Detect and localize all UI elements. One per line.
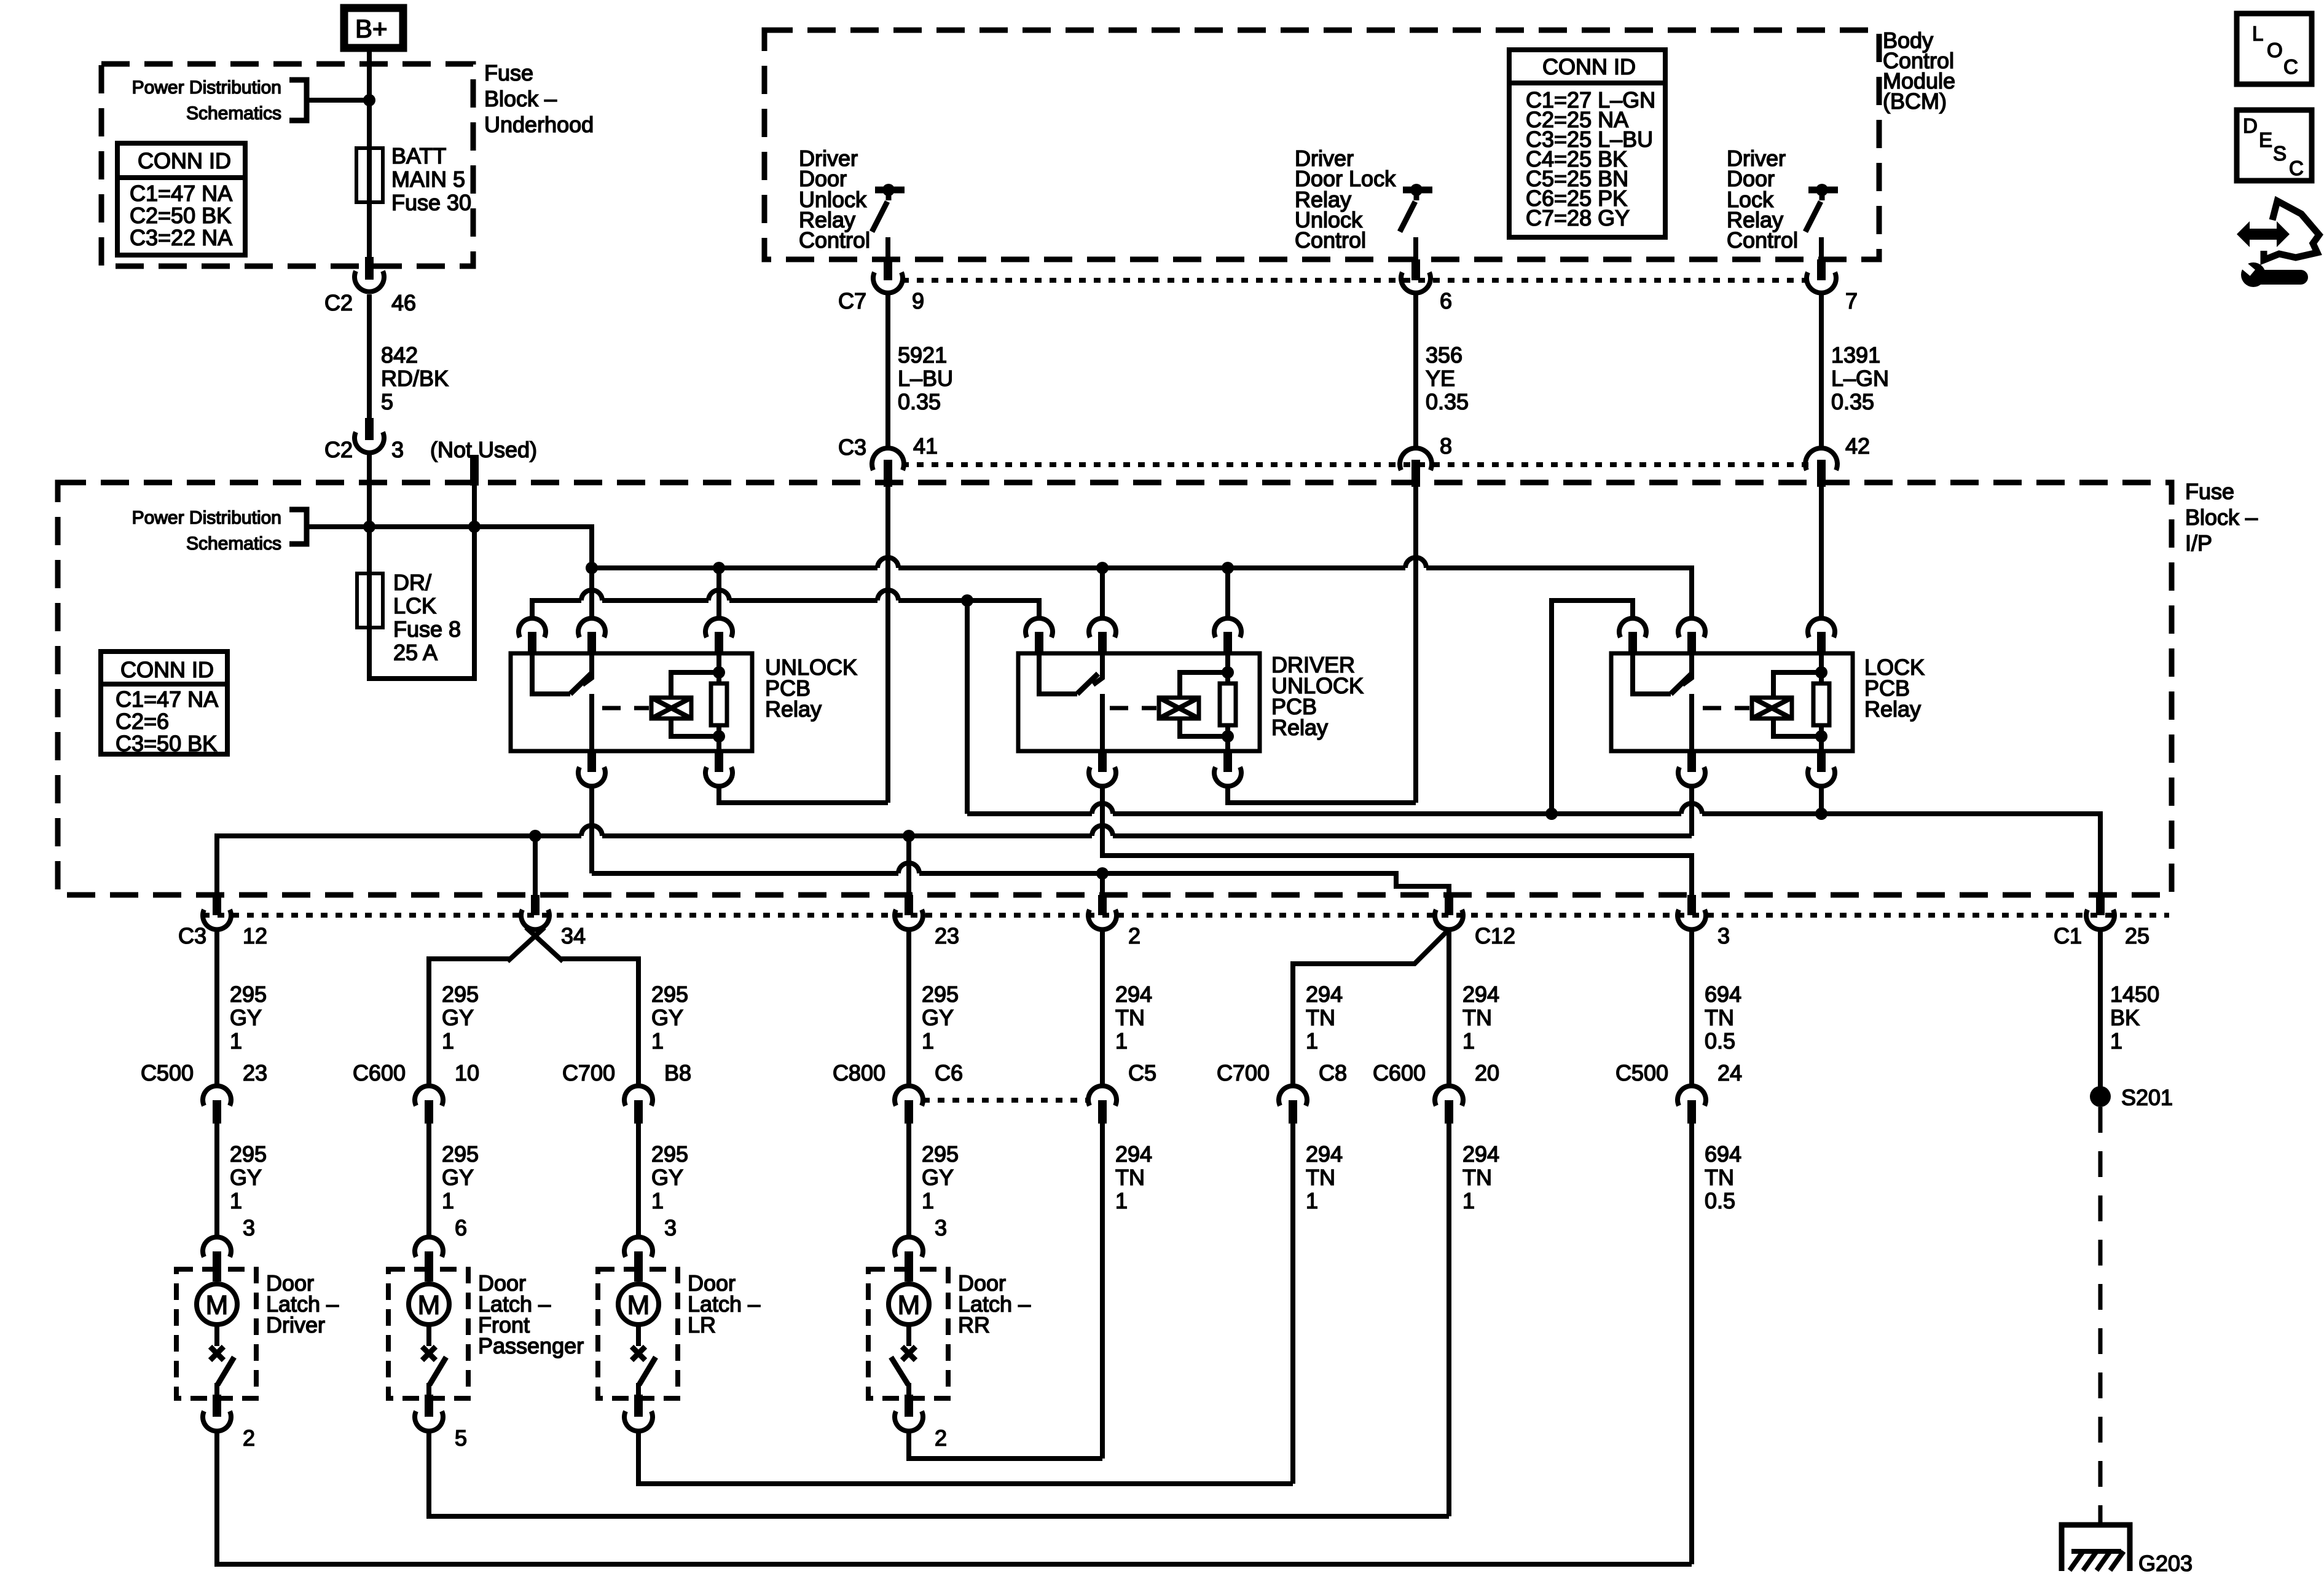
node bus C at lock common feed xyxy=(1545,808,1558,820)
svg-text:C2=50 BK: C2=50 BK xyxy=(130,203,231,228)
svg-text:C8: C8 xyxy=(1319,1060,1347,1085)
svg-text:25 A: 25 A xyxy=(393,640,438,665)
svg-text:694: 694 xyxy=(1705,1141,1741,1167)
connector C600 pin 10 xyxy=(353,1060,479,1124)
door latch driver label xyxy=(266,1270,339,1337)
svg-text:0.5: 0.5 xyxy=(1705,1188,1735,1213)
relay U2 label xyxy=(1271,652,1364,740)
svg-text:BATT: BATT xyxy=(391,143,446,168)
driver door unlock relay control label xyxy=(799,146,870,253)
node bus A at driver-unlock coil feed xyxy=(1222,562,1234,574)
wire 1450 BK 1 xyxy=(2100,929,2159,1097)
relay U2 switch xyxy=(1039,653,1102,751)
wire U2 switch output down to bus F xyxy=(1102,786,1692,895)
DESC icon box xyxy=(2237,110,2312,181)
node bus A at driver-unlock switch feed xyxy=(1096,562,1109,574)
svg-text:0.5: 0.5 xyxy=(1705,1028,1735,1053)
svg-text:295: 295 xyxy=(651,1141,688,1167)
wire bus A to unlock coil pin xyxy=(716,568,721,620)
svg-text:Fuse 8: Fuse 8 xyxy=(393,616,461,642)
svg-text:295: 295 xyxy=(922,1141,959,1167)
svg-text:6: 6 xyxy=(1440,288,1452,313)
wire 294 TN 1 C600-20 upper xyxy=(1462,982,1499,1053)
wire 295 GY 1 RR lower xyxy=(909,1124,959,1240)
svg-text:C3: C3 xyxy=(838,435,866,460)
door latch LR pin 3 connector xyxy=(624,1237,653,1282)
relay U3 coil xyxy=(1752,672,1821,736)
relay U3 switch output pin connector xyxy=(1678,751,1705,786)
switch RR latch xyxy=(891,1347,916,1396)
svg-text:CONN ID: CONN ID xyxy=(138,148,231,173)
ground G203 xyxy=(2062,1525,2192,1576)
wire bus E drop to connector 2 xyxy=(1100,873,1105,895)
svg-text:TN: TN xyxy=(1115,1005,1145,1030)
relay U2 resistor xyxy=(1220,653,1236,736)
connector pin 6 xyxy=(1401,259,1452,313)
wire 694 TN 0.5 upper xyxy=(1692,929,1741,1086)
svg-text:Block –: Block – xyxy=(484,86,557,111)
svg-text:C600: C600 xyxy=(1373,1060,1426,1085)
svg-text:MAIN 5: MAIN 5 xyxy=(391,167,465,192)
svg-text:1: 1 xyxy=(922,1028,934,1053)
power distribution schematics label (top) xyxy=(132,77,281,124)
svg-text:0.35: 0.35 xyxy=(898,389,941,414)
motor M RR xyxy=(889,1284,929,1346)
node bus A at unlock relay feed xyxy=(586,562,598,574)
wire BCM lock control down to lock coil xyxy=(1819,487,1824,620)
connector pin 3 xyxy=(1678,895,1730,948)
B+ terminal box xyxy=(344,8,403,48)
svg-text:1: 1 xyxy=(442,1188,454,1213)
svg-text:3: 3 xyxy=(935,1215,947,1240)
svg-text:G203: G203 xyxy=(2138,1551,2192,1576)
svg-text:GY: GY xyxy=(230,1165,262,1190)
BCM connector row dotted line xyxy=(902,278,1810,283)
svg-text:Power Distribution: Power Distribution xyxy=(132,508,281,528)
svg-text:C7: C7 xyxy=(838,288,866,313)
BCM label xyxy=(1883,28,1955,114)
svg-text:Power Distribution: Power Distribution xyxy=(132,77,281,98)
hop bus A over BCM unlock wire xyxy=(877,557,898,568)
node junction main feed at y857 xyxy=(363,521,375,533)
svg-text:41: 41 xyxy=(913,433,938,459)
svg-text:Fuse: Fuse xyxy=(484,60,533,85)
svg-text:YE: YE xyxy=(1426,366,1455,391)
relay U1 coil xyxy=(651,672,719,736)
svg-text:Underhood: Underhood xyxy=(484,112,594,137)
wire feed to DR/LCK fuse xyxy=(367,527,372,573)
CONN ID table (BCM) xyxy=(1509,50,1665,237)
door latch LR pin 2 connector xyxy=(624,1395,653,1431)
wire LR latch to C700-C8 xyxy=(638,1431,1293,1484)
svg-text:Control: Control xyxy=(799,227,870,253)
svg-text:C500: C500 xyxy=(1615,1060,1668,1085)
svg-text:C12: C12 xyxy=(1475,923,1515,948)
svg-text:23: 23 xyxy=(243,1060,267,1085)
wire BCM lock-unlock control down the IP block xyxy=(1413,487,1418,803)
relay U2 common pin connector xyxy=(1026,618,1053,653)
svg-text:Fuse: Fuse xyxy=(2185,479,2234,504)
svg-text:C3=22 NA: C3=22 NA xyxy=(130,225,232,250)
relay U3 switch xyxy=(1633,653,1692,751)
connector pin 2 xyxy=(1088,895,1140,948)
relay U1 switch fixed pin connector xyxy=(578,618,605,653)
door latch RR pin 3 connector xyxy=(895,1237,923,1282)
connector pin 23 xyxy=(895,895,959,948)
svg-text:46: 46 xyxy=(391,290,416,315)
hop bus B over unlock coil feed xyxy=(709,590,729,600)
svg-text:C7=28 GY: C7=28 GY xyxy=(1526,205,1630,230)
svg-text:5921: 5921 xyxy=(898,342,947,368)
svg-text:GY: GY xyxy=(922,1165,954,1190)
svg-text:M: M xyxy=(898,1290,921,1320)
svg-text:1450: 1450 xyxy=(2110,982,2159,1007)
IP connector row dotted line xyxy=(902,462,1810,467)
driver door lock relay unlock control label xyxy=(1295,146,1396,253)
svg-text:B+: B+ xyxy=(355,14,388,43)
wire bus C up to U3 common pin xyxy=(1552,600,1633,814)
svg-text:294: 294 xyxy=(1115,982,1152,1007)
svg-text:TN: TN xyxy=(1705,1005,1734,1030)
hop bus B over unlock switch feed xyxy=(581,590,602,600)
node bus D at 34 drop xyxy=(529,830,541,842)
door latch driver pin 3 connector xyxy=(203,1237,231,1282)
relay U2 coil pin connector xyxy=(1214,618,1241,653)
relay U1 coil bottom pin connector xyxy=(705,736,732,786)
connector pin C12 xyxy=(1435,895,1515,948)
node U3 coil bottom xyxy=(1815,730,1827,742)
svg-text:Fuse 30: Fuse 30 xyxy=(391,190,471,215)
svg-text:23: 23 xyxy=(935,923,959,948)
relay U1 UNLOCK PCB Relay box xyxy=(511,653,752,751)
svg-text:Control: Control xyxy=(1295,227,1366,253)
svg-text:1: 1 xyxy=(1462,1188,1475,1213)
svg-text:(BCM): (BCM) xyxy=(1883,89,1947,114)
connector C2 pin 46 xyxy=(324,257,416,315)
hop bus A over BCM lock-unlock wire xyxy=(1405,557,1426,568)
svg-text:M: M xyxy=(627,1290,650,1320)
node bus A at unlock coil feed xyxy=(713,562,725,574)
svg-text:8: 8 xyxy=(1440,433,1452,459)
relay U1 common pin connector xyxy=(519,618,546,653)
node bus B at lock feed drop xyxy=(961,594,973,607)
svg-text:TN: TN xyxy=(1462,1165,1492,1190)
svg-text:C2: C2 xyxy=(324,290,353,315)
bus B horizontal y977 xyxy=(532,600,1039,620)
hop bus C over U2 output xyxy=(1092,803,1113,814)
wire 295 GY 1 LR lower xyxy=(638,1124,688,1240)
svg-text:1: 1 xyxy=(1462,1028,1475,1053)
connector C12 Y split xyxy=(1293,929,1449,1086)
relay U3 label xyxy=(1864,655,1925,722)
svg-text:356: 356 xyxy=(1426,342,1462,368)
svg-text:3: 3 xyxy=(1717,923,1730,948)
wire 295 GY 1 LR upper xyxy=(651,982,688,1053)
body control module dashed box xyxy=(764,30,1879,259)
svg-text:C1=47 NA: C1=47 NA xyxy=(116,687,218,712)
svg-text:25: 25 xyxy=(2125,923,2149,948)
svg-text:BK: BK xyxy=(2110,1005,2140,1030)
wire bus A to unlock switch pin xyxy=(589,568,594,620)
wire driver latch to C500-24 xyxy=(217,1431,1692,1564)
wire RR latch to C5 xyxy=(909,1431,1102,1459)
svg-text:C500: C500 xyxy=(141,1060,194,1085)
svg-text:C1: C1 xyxy=(2054,923,2082,948)
svg-text:Block –: Block – xyxy=(2185,505,2258,530)
wire front passenger latch to C600-20 xyxy=(429,1431,1449,1516)
hop bus D over U1 output xyxy=(581,825,602,836)
svg-text:295: 295 xyxy=(230,1141,267,1167)
svg-text:42: 42 xyxy=(1845,433,1870,459)
svg-text:Relay: Relay xyxy=(765,696,822,722)
svg-text:C3: C3 xyxy=(178,923,206,948)
svg-text:D: D xyxy=(2243,114,2258,137)
svg-text:Schematics: Schematics xyxy=(186,534,281,554)
svg-text:C2=6: C2=6 xyxy=(116,709,169,734)
wire 294 TN 1 C5 lower xyxy=(1102,1124,1152,1459)
motor M LR xyxy=(618,1284,659,1346)
svg-text:L–GN: L–GN xyxy=(1831,366,1889,391)
svg-text:O: O xyxy=(2267,39,2283,61)
BCM driver door lock relay control switch xyxy=(1805,184,1838,232)
node U3 coil top xyxy=(1815,666,1827,679)
bracket to power distribution (IP) xyxy=(289,510,307,544)
svg-text:Driver: Driver xyxy=(266,1312,325,1337)
svg-text:TN: TN xyxy=(1705,1165,1734,1190)
relay U1 switch xyxy=(532,653,592,751)
wire U2 coil bottom to BCM lock-unlock wire xyxy=(1228,786,1416,803)
svg-text:GY: GY xyxy=(651,1005,683,1030)
connector pin 8 xyxy=(1400,433,1452,487)
wire 1391 L-GN 0.35 xyxy=(1821,295,1889,450)
wire switch to pin 7 xyxy=(1819,237,1824,261)
switch LR latch xyxy=(632,1347,656,1396)
wire 5921 L-BU 0.35 xyxy=(888,295,953,450)
BCM driver door unlock relay control switch xyxy=(872,184,905,232)
svg-text:3: 3 xyxy=(664,1215,677,1240)
wire C2-3 into fuse block IP xyxy=(367,455,372,527)
wire 295 GY 1 front passenger lower xyxy=(429,1124,479,1240)
CONN ID table (IP) xyxy=(101,652,227,756)
svg-text:20: 20 xyxy=(1475,1060,1499,1085)
relay U2 switch fixed pin connector xyxy=(1089,618,1116,653)
wire not-used stub to junction xyxy=(472,484,477,527)
BCM driver door lock relay unlock control switch xyxy=(1400,184,1432,232)
svg-text:C2: C2 xyxy=(324,437,353,462)
node bus C at lock coil bottom xyxy=(1815,808,1827,820)
svg-text:TN: TN xyxy=(1115,1165,1145,1190)
splice S201 xyxy=(2090,1085,2173,1110)
wire y857 to bus A corner xyxy=(369,527,592,568)
wire 294 TN 1 C600-20 lower xyxy=(1449,1124,1499,1516)
relay U3 resistor xyxy=(1813,653,1829,736)
bracket to power distribution (top) xyxy=(289,80,307,120)
wire 356 YE 0.35 xyxy=(1416,295,1469,450)
switch driver latch xyxy=(210,1347,234,1396)
wire BCM unlock control down the IP block xyxy=(885,487,890,803)
relay U1 resistor xyxy=(711,653,727,736)
svg-text:C3=50 BK: C3=50 BK xyxy=(116,731,217,756)
door latch driver pin 2 connector xyxy=(203,1395,255,1451)
svg-text:694: 694 xyxy=(1705,982,1741,1007)
door latch RR pin 2 connector xyxy=(895,1395,947,1451)
fuse block IP label xyxy=(2185,479,2258,556)
wire 295 GY 1 RR upper xyxy=(909,929,959,1086)
service icon dog outline xyxy=(2264,201,2319,260)
svg-text:C700: C700 xyxy=(562,1060,615,1085)
svg-text:CONN ID: CONN ID xyxy=(1542,54,1636,79)
svg-text:C700: C700 xyxy=(1217,1060,1270,1085)
wire 295 GY 1 front passenger upper xyxy=(442,982,479,1053)
svg-text:1: 1 xyxy=(922,1188,934,1213)
LOC icon box xyxy=(2237,14,2312,84)
svg-text:1: 1 xyxy=(1115,1028,1128,1053)
wire bus A to driver-unlock coil pin xyxy=(1225,568,1230,620)
relay U3 switch fixed pin connector xyxy=(1678,618,1705,653)
relay U3 LOCK PCB Relay box xyxy=(1611,653,1853,751)
relay U2 coil xyxy=(1159,672,1228,736)
connector C7 pin 9 xyxy=(838,259,924,313)
hop bus C over U3 output xyxy=(1681,803,1702,814)
svg-text:L: L xyxy=(2252,22,2263,45)
node bus D at 23 drop xyxy=(903,830,915,842)
connector C3 pin 12 xyxy=(178,895,267,948)
svg-text:L–BU: L–BU xyxy=(898,366,953,391)
svg-text:34: 34 xyxy=(561,923,586,948)
svg-text:2: 2 xyxy=(243,1425,255,1451)
svg-text:294: 294 xyxy=(1306,982,1343,1007)
connector C3 pin 41 xyxy=(838,433,938,487)
svg-text:TN: TN xyxy=(1306,1165,1335,1190)
wire bus A to driver-unlock switch pin xyxy=(1100,568,1105,620)
connector pin C5 xyxy=(1088,1060,1156,1124)
door latch front passenger label xyxy=(478,1270,584,1358)
svg-text:9: 9 xyxy=(912,288,924,313)
wire bus B drop to bus C xyxy=(965,600,970,814)
svg-text:I/P: I/P xyxy=(2185,530,2212,556)
fuse BATT MAIN 5 Fuse 30 xyxy=(356,143,471,215)
fuse block underhood dashed box xyxy=(101,64,473,266)
svg-text:TN: TN xyxy=(1462,1005,1492,1030)
svg-text:C5: C5 xyxy=(1128,1060,1156,1085)
switch front passenger latch xyxy=(422,1347,446,1396)
svg-text:24: 24 xyxy=(1717,1060,1742,1085)
svg-text:GY: GY xyxy=(651,1165,683,1190)
svg-text:M: M xyxy=(418,1290,441,1320)
door latch LR box xyxy=(598,1269,678,1398)
svg-text:6: 6 xyxy=(455,1215,467,1240)
door latch RR label xyxy=(958,1270,1030,1337)
svg-text:M: M xyxy=(206,1290,229,1320)
svg-text:1: 1 xyxy=(651,1028,664,1053)
svg-text:294: 294 xyxy=(1306,1141,1343,1167)
CONN ID table (underhood) xyxy=(117,143,245,255)
dashed wire S201 to G203 xyxy=(2098,1107,2103,1525)
relay U3 coil bottom pin connector xyxy=(1808,736,1835,786)
svg-text:1: 1 xyxy=(230,1028,242,1053)
svg-text:0.35: 0.35 xyxy=(1831,389,1874,414)
bus A horizontal y924 xyxy=(592,568,1692,620)
wire 294 TN 1 C8 upper xyxy=(1306,982,1343,1053)
node junction at B+ feed xyxy=(363,94,375,106)
motor M driver xyxy=(197,1284,237,1346)
svg-text:LCK: LCK xyxy=(393,593,436,618)
svg-text:GY: GY xyxy=(230,1005,262,1030)
svg-text:5: 5 xyxy=(381,389,393,414)
svg-text:1: 1 xyxy=(1306,1028,1318,1053)
wire 295 GY 1 driver lower xyxy=(217,1124,267,1240)
node bus E at 2 drop xyxy=(1096,867,1109,880)
svg-text:Relay: Relay xyxy=(1864,696,1921,722)
service icon wrench xyxy=(2237,259,2301,287)
door latch LR label xyxy=(688,1270,760,1337)
dotted line C6 to C5 xyxy=(923,1098,1088,1103)
wire 694 TN 0.5 lower xyxy=(1692,1124,1741,1564)
node U1 coil bottom xyxy=(713,730,725,742)
svg-text:1: 1 xyxy=(2110,1028,2122,1053)
svg-text:C800: C800 xyxy=(833,1060,885,1085)
svg-text:1: 1 xyxy=(230,1188,242,1213)
svg-text:Schematics: Schematics xyxy=(186,103,281,124)
door latch front passenger pin 6 connector xyxy=(415,1237,443,1282)
service icon double arrow xyxy=(2237,221,2290,247)
svg-text:1: 1 xyxy=(442,1028,454,1053)
wire 295 GY 1 driver upper xyxy=(217,929,267,1086)
wire bracket to main feed xyxy=(307,98,369,103)
svg-text:1: 1 xyxy=(651,1188,664,1213)
connector C2 pin 3 xyxy=(324,418,404,462)
wire bracket to feed junction xyxy=(307,524,369,529)
wire switch to pin 6 xyxy=(1413,237,1418,261)
connector C800 pin C6 xyxy=(833,1060,963,1124)
svg-text:3: 3 xyxy=(391,437,404,462)
motor M front passenger xyxy=(409,1284,449,1346)
bus C horizontal y1324 xyxy=(967,814,2100,895)
door latch front passenger pin 5 connector xyxy=(415,1395,467,1451)
svg-text:294: 294 xyxy=(1115,1141,1152,1167)
node U1 coil top xyxy=(713,666,725,679)
svg-text:C: C xyxy=(2289,157,2304,179)
wire fuse output loop to bus xyxy=(369,527,474,679)
fuse DR/LCK Fuse 8 25 A xyxy=(357,570,461,665)
wire U3 switch output down to bus D xyxy=(1689,786,1694,836)
wire U1 switch output down to bus E xyxy=(589,786,594,873)
svg-text:842: 842 xyxy=(381,342,418,368)
svg-text:295: 295 xyxy=(442,982,479,1007)
node junction loop at y857 xyxy=(468,521,481,533)
svg-text:GY: GY xyxy=(922,1005,954,1030)
svg-text:(Not Used): (Not Used) xyxy=(430,437,537,462)
connector pin 42 xyxy=(1805,433,1870,487)
not used stub xyxy=(470,455,479,486)
fuse block IP dashed box xyxy=(58,482,2172,895)
connector C600 pin 20 xyxy=(1373,1060,1499,1124)
relay U2 actuator dashed link xyxy=(1110,706,1156,711)
svg-text:12: 12 xyxy=(243,923,267,948)
svg-text:294: 294 xyxy=(1462,982,1499,1007)
hop bus D over U2 output xyxy=(1092,825,1113,836)
door latch driver box xyxy=(176,1269,256,1398)
svg-text:5: 5 xyxy=(455,1425,467,1451)
relay U3 common pin connector xyxy=(1619,618,1646,653)
hop bus B over BCM unlock wire xyxy=(877,590,898,600)
svg-text:TN: TN xyxy=(1306,1005,1335,1030)
svg-text:295: 295 xyxy=(651,982,688,1007)
svg-text:CONN ID: CONN ID xyxy=(120,657,214,682)
wire bus D drop to connector 23 xyxy=(906,836,911,895)
svg-text:E: E xyxy=(2259,128,2272,151)
fuse block underhood label xyxy=(484,60,594,137)
